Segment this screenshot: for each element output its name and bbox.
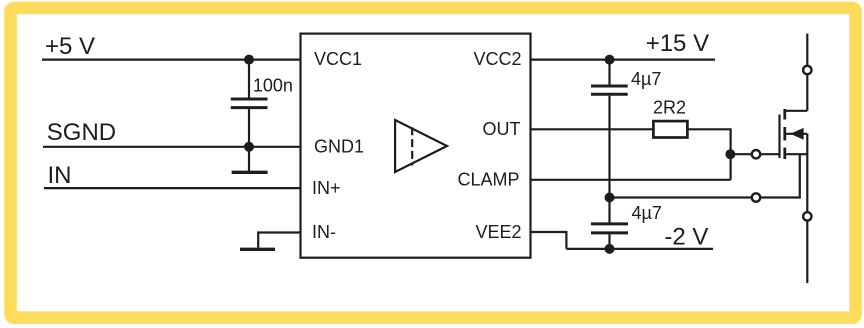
wire C2 top lead (608, 60, 610, 85)
wire Q1 drain stub (786, 110, 807, 112)
svg-text:GND1: GND1 (314, 137, 364, 157)
capacitor C3 4u7 (591, 224, 628, 233)
ground bar SGND (232, 171, 268, 174)
wire CLAMP line (531, 179, 731, 181)
svg-text:VEE2: VEE2 (475, 222, 521, 242)
wire SGND ground stub (248, 147, 250, 171)
value label 4u7 bottom (632, 203, 662, 223)
wire IN- lead (258, 233, 300, 248)
svg-text:IN-: IN- (312, 222, 336, 242)
wire SGND rail (43, 146, 301, 148)
value label 100n (253, 75, 293, 95)
junction dot SGND (244, 142, 254, 152)
wire source vertical lower (806, 221, 808, 283)
svg-text:VCC2: VCC2 (473, 49, 521, 69)
pin CLAMP (457, 170, 519, 190)
connector pin kelvin source (752, 193, 760, 201)
svg-text:IN: IN (48, 162, 72, 189)
pin VCC1 (314, 49, 362, 69)
value label 4u7 top (631, 69, 661, 89)
node +15V label (646, 30, 709, 57)
node +5V label (45, 33, 95, 60)
svg-text:4µ7: 4µ7 (631, 69, 661, 89)
wire connector to gate (760, 153, 779, 155)
node IN label (48, 162, 72, 189)
wire OUT line (531, 128, 653, 130)
node -2V label (664, 224, 708, 251)
svg-text:VCC1: VCC1 (314, 49, 362, 69)
wire Q1 source stub (786, 153, 807, 155)
capacitor C2 4u7 (591, 86, 628, 94)
connector pin drain (803, 66, 811, 74)
op-amp U1 box (301, 34, 531, 258)
wire drain vertical lower (806, 74, 808, 111)
wire R1 to gate node (688, 129, 731, 180)
wire kelvin connector to source node (610, 196, 752, 198)
svg-text:-2 V: -2 V (664, 224, 708, 251)
junction dot +5V/C1 (244, 55, 254, 65)
wire +5V rail (42, 58, 301, 60)
wire source branch to kelvin connector (760, 154, 800, 197)
value label 2R2 (653, 97, 686, 117)
node SGND label (47, 119, 116, 146)
wire gate node to connector (730, 153, 751, 155)
svg-text:4µ7: 4µ7 (632, 203, 662, 223)
wire IN rail (44, 187, 301, 189)
amplifier triangle (395, 120, 447, 172)
capacitor C1 100n (231, 99, 268, 108)
transistor Q1 body arrow (786, 128, 807, 140)
svg-text:+15 V: +15 V (646, 30, 709, 57)
connector pin gate (752, 150, 760, 158)
connector pin source (803, 212, 811, 220)
svg-text:SGND: SGND (47, 119, 116, 146)
amplifier dashed line (411, 127, 413, 165)
svg-text:2R2: 2R2 (653, 97, 686, 117)
pin VEE2 (475, 222, 521, 242)
wire VCC2/+15V rail (531, 58, 716, 60)
svg-text:+5 V: +5 V (45, 33, 95, 60)
wire C1 bottom lead (248, 109, 250, 147)
wire C3 top lead (608, 198, 610, 223)
junction dot -2V/C3 (605, 244, 615, 254)
wire C2 bottom lead to source node (608, 96, 610, 198)
pin IN+ (312, 178, 341, 198)
wire -2V rail (566, 248, 713, 250)
transistor Q1 gate plate (778, 115, 780, 159)
junction dot source node (605, 193, 615, 203)
wire C1 top lead (248, 60, 250, 98)
junction dot gate node (725, 149, 735, 159)
wire VEE2 step (531, 232, 567, 249)
transistor Q1 channel segments (783, 109, 786, 159)
resistor R1 2R2 (653, 121, 687, 137)
pin OUT (483, 119, 521, 139)
wire source vertical (806, 134, 808, 213)
svg-text:OUT: OUT (483, 119, 521, 139)
wire C3 bottom lead (608, 234, 610, 249)
svg-text:IN+: IN+ (312, 178, 341, 198)
pin GND1 (314, 137, 364, 157)
svg-text:CLAMP: CLAMP (457, 170, 519, 190)
svg-text:100n: 100n (253, 75, 293, 95)
wire drain vertical upper (806, 34, 808, 66)
ground bar IN- (240, 248, 275, 251)
junction dot +15V/C2 (605, 55, 615, 65)
pin VCC2 (473, 49, 521, 69)
pin IN- (312, 222, 336, 242)
